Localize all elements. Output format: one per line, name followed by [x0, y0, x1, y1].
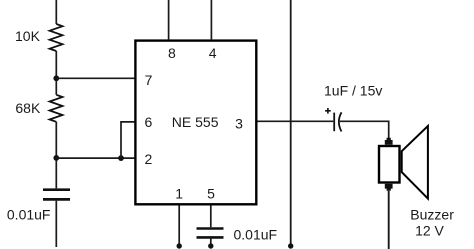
resistor 68K: [50, 95, 63, 122]
buzzer bottom terminal: [385, 184, 393, 191]
wire to pin 2: [56, 157, 135, 159]
svg-text:7: 7: [145, 72, 153, 88]
svg-text:8: 8: [168, 45, 176, 61]
svg-text:NE 555: NE 555: [172, 114, 219, 130]
buzzer body: [379, 146, 400, 183]
wire left rail top (to R 10K): [55, 0, 57, 24]
junction node pin 1 bottom: [177, 243, 182, 248]
wire pin 4 up: [210, 0, 212, 39]
wire between 68K and capacitor: [55, 122, 57, 189]
capacitor 1uF/15v straight plate: [333, 113, 335, 132]
svg-text:3: 3: [235, 115, 243, 131]
wire capacitor to buzzer: [340, 121, 389, 140]
capacitor 1uF/15v curved plate: [339, 112, 342, 131]
wire between 10K and 68K: [55, 51, 57, 95]
wire pin 8 up: [168, 0, 170, 39]
svg-text:1: 1: [175, 185, 183, 201]
resistor 10K: [50, 24, 63, 51]
wire pin 1 down: [178, 206, 180, 247]
capacitor 0.01uF right plate bottom: [197, 236, 224, 239]
svg-text:2: 2: [145, 151, 153, 167]
svg-text:10K: 10K: [15, 28, 41, 44]
buzzer top terminal: [385, 138, 393, 145]
wire buzzer down: [388, 191, 390, 249]
svg-text:68K: 68K: [15, 100, 41, 116]
svg-text:4: 4: [209, 45, 217, 61]
svg-text:0.01uF: 0.01uF: [7, 207, 51, 223]
vertical supply rail: [290, 0, 292, 246]
junction node pin 5 bottom: [208, 243, 213, 248]
junction node at divider top: [53, 75, 59, 81]
svg-text:Buzzer: Buzzer: [410, 206, 454, 222]
wire to pin 7: [56, 77, 135, 79]
svg-text:1uF / 15v: 1uF / 15v: [324, 82, 382, 98]
svg-text:6: 6: [145, 114, 153, 130]
wire link pin 6 to pin 2: [121, 122, 135, 158]
wire pin 3 to capacitor: [258, 120, 334, 122]
capacitor 1uF/15v plus sign: [325, 108, 331, 114]
junction node at divider bottom: [53, 155, 59, 161]
wire pin 5 cap down: [210, 239, 212, 247]
junction node rail bottom: [288, 243, 293, 248]
svg-text:0.01uF: 0.01uF: [234, 226, 278, 242]
svg-text:5: 5: [207, 185, 215, 201]
op-amp timer IC NE 555 body: [135, 41, 256, 205]
capacitor 0.01uF left plate top: [43, 188, 70, 191]
junction node pin2/pin6 link: [118, 155, 124, 161]
capacitor 0.01uF left plate bottom: [43, 198, 70, 201]
wire left rail bottom: [55, 201, 57, 247]
svg-text:12 V: 12 V: [415, 223, 444, 239]
buzzer cone: [402, 126, 428, 199]
capacitor 0.01uF right plate top: [197, 227, 224, 230]
wire pin 5 down: [210, 206, 212, 228]
